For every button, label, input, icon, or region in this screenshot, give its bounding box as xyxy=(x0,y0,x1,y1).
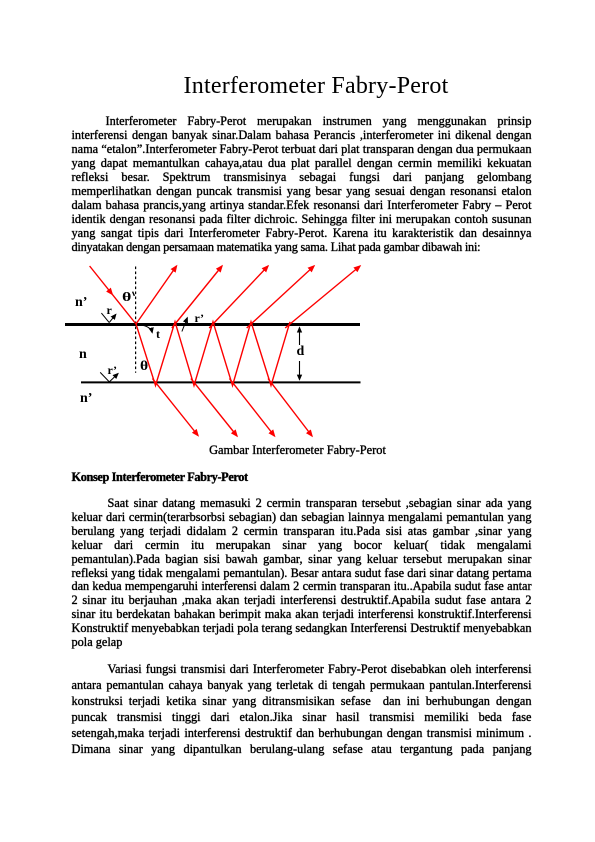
label t xyxy=(156,329,160,339)
label theta-prime xyxy=(122,291,131,303)
r reflection mark top: V with arrow xyxy=(101,313,109,323)
transmitted up ray 1 xyxy=(172,266,222,328)
arrowhead on incoming ray xyxy=(103,283,112,294)
transmitted down ray 2 xyxy=(191,379,237,437)
d dimension arrow lower xyxy=(299,361,301,380)
dashed normal line xyxy=(135,267,137,373)
internal zigzag rays xyxy=(136,322,290,386)
label r xyxy=(107,305,112,315)
label theta xyxy=(140,361,148,373)
label r' (bottom) xyxy=(108,365,118,375)
label r' (top mid) xyxy=(195,313,205,323)
transmitted down ray 4 xyxy=(268,379,312,437)
bottom mirror xyxy=(81,381,361,383)
top mirror xyxy=(65,323,360,326)
paragraph 1 xyxy=(72,114,532,254)
transmitted up ray 2 xyxy=(209,266,268,328)
transmitted up ray 4 xyxy=(285,266,360,328)
caption xyxy=(0,443,595,457)
paragraph 2 xyxy=(72,497,532,649)
title xyxy=(0,74,595,98)
incoming ray xyxy=(90,266,136,324)
r' reflection mark bottom: V with arrow xyxy=(100,372,109,382)
reflected ray xyxy=(136,266,177,324)
label n xyxy=(79,349,87,361)
heading xyxy=(72,470,248,484)
transmitted up ray 3 xyxy=(247,266,314,328)
paragraph 3 xyxy=(72,661,532,757)
d dimension arrow upper xyxy=(299,328,301,345)
transmitted down ray 3 xyxy=(229,379,274,437)
label n'' (bottom) xyxy=(80,393,92,405)
label d xyxy=(297,346,305,358)
label n' (top) xyxy=(75,297,87,309)
transmitted down ray 1 xyxy=(152,379,198,436)
t curved arrow xyxy=(140,325,152,333)
r' small arrow at 2nd top bounce xyxy=(182,318,187,332)
